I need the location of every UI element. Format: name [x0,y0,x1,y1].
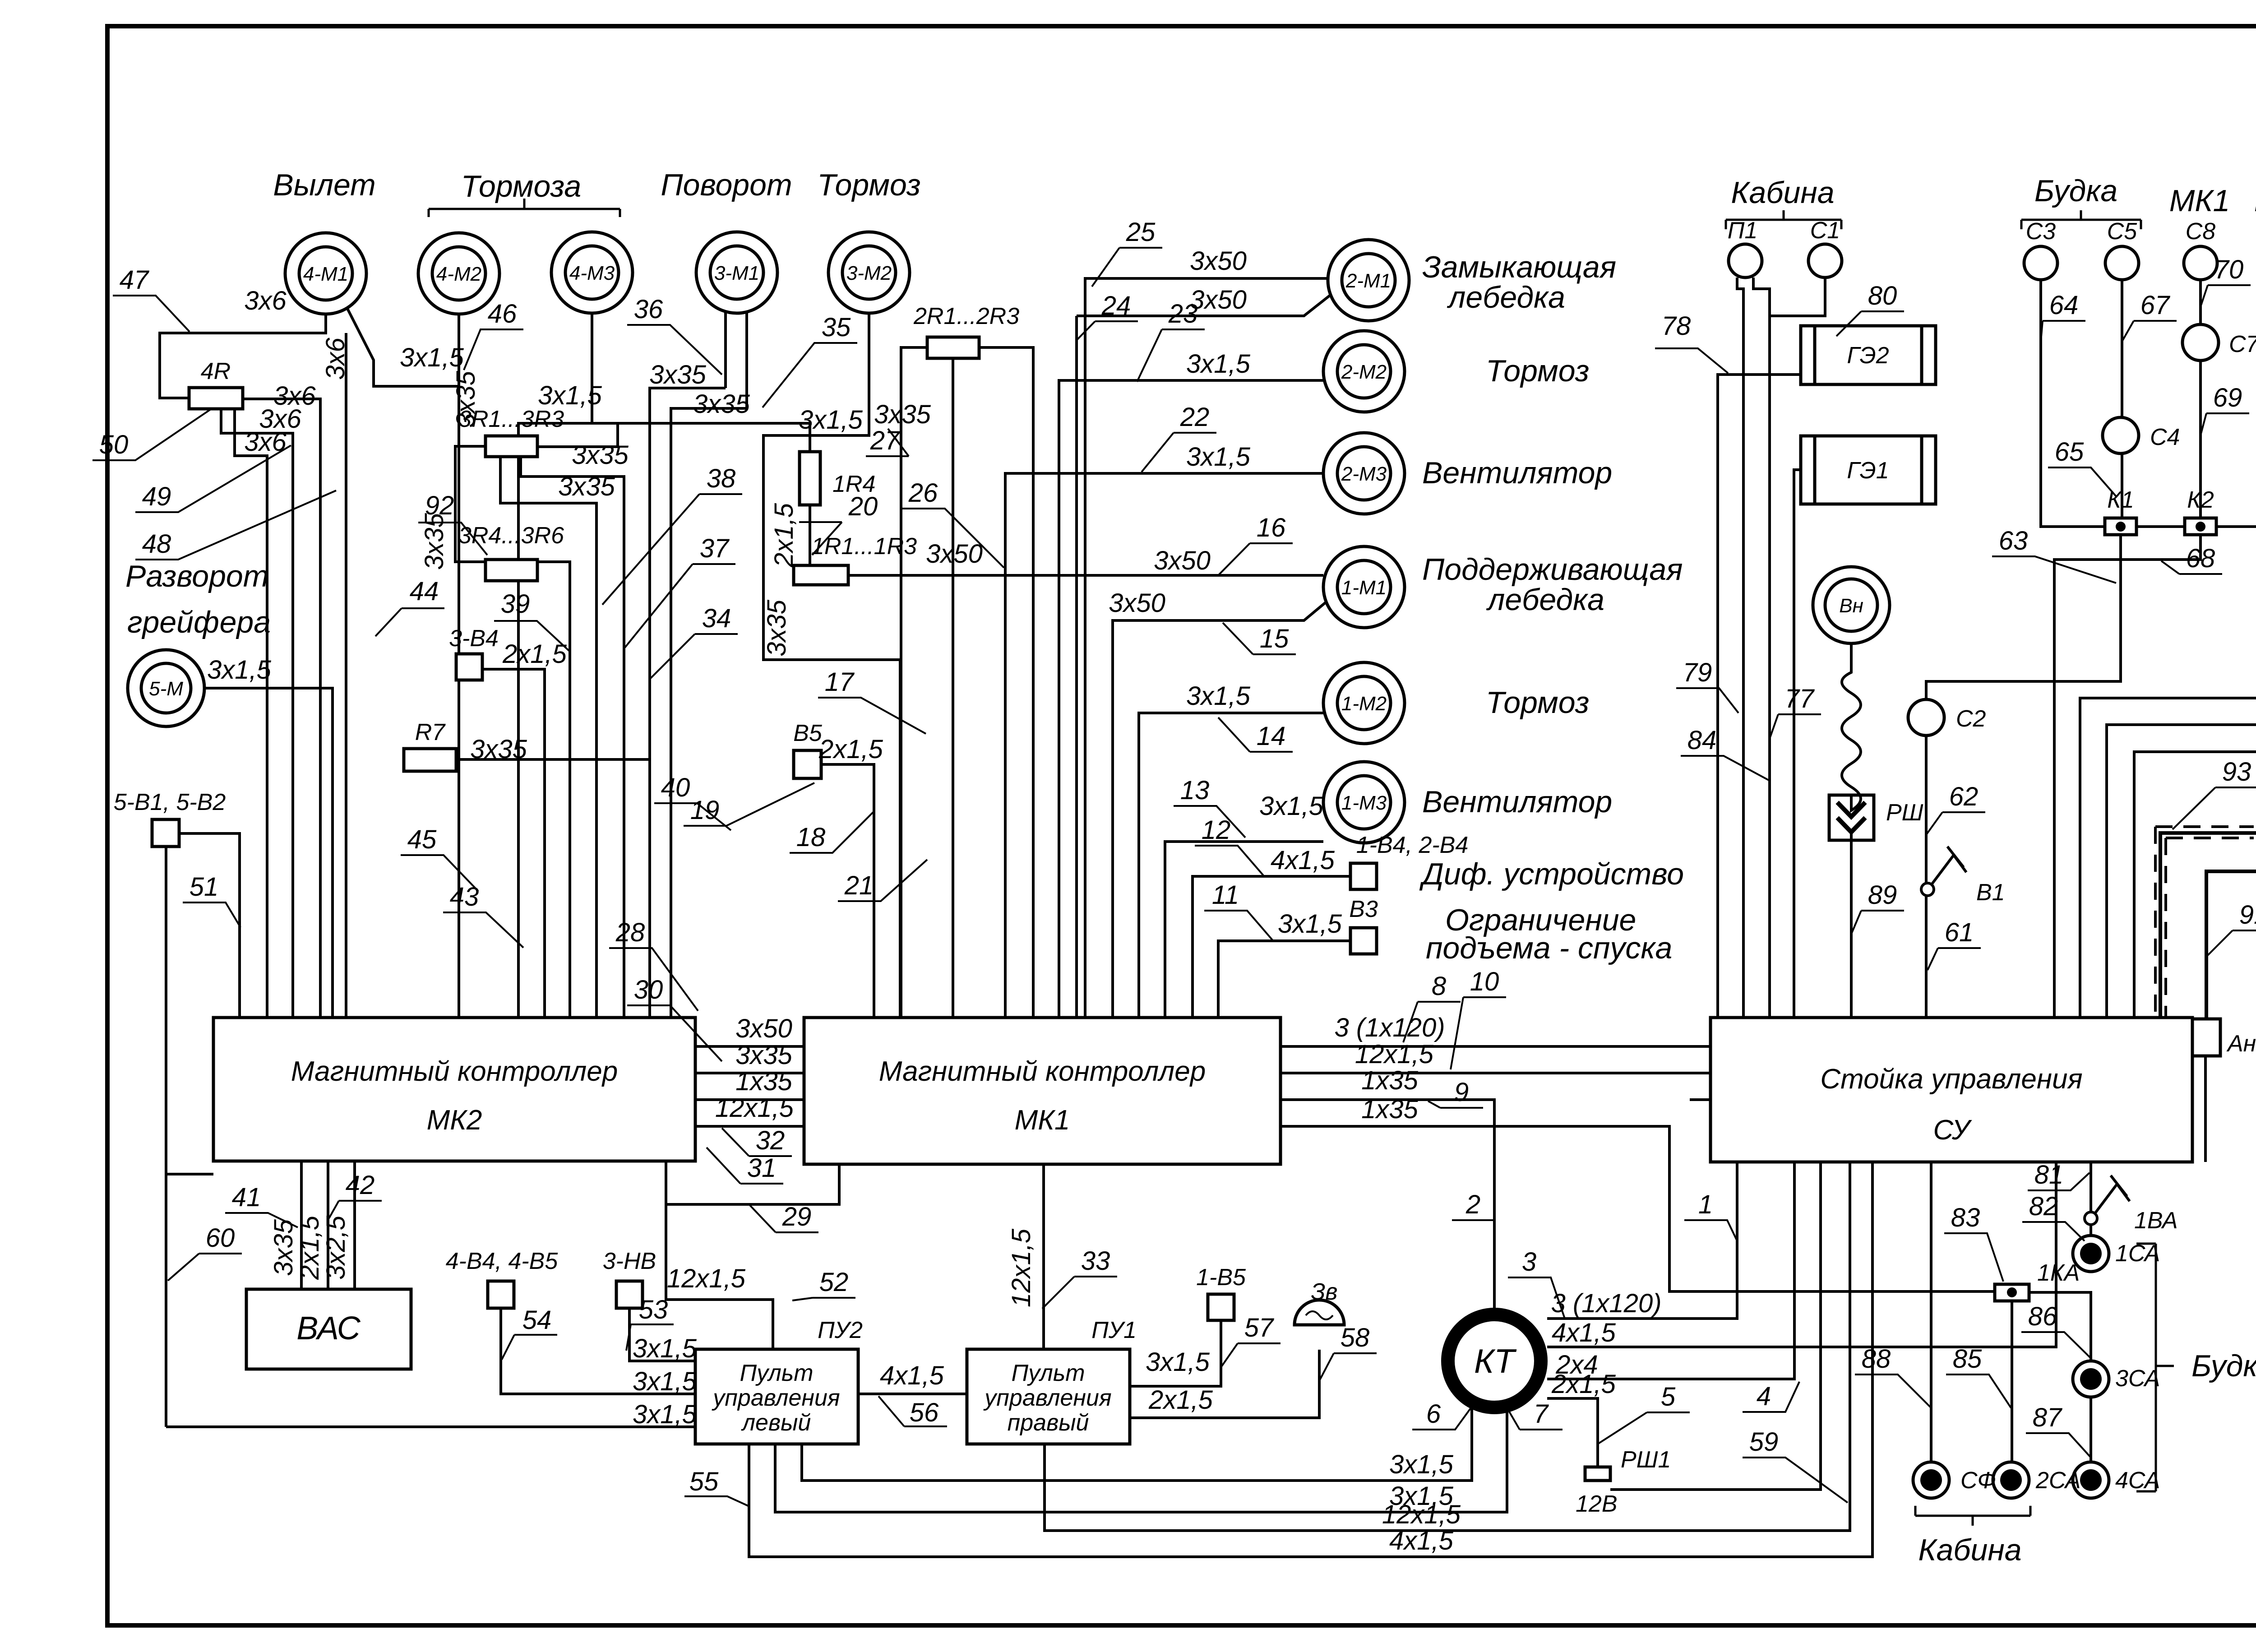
svg-text:С1: С1 [1810,217,1840,244]
svg-text:управления: управления [983,1385,1111,1411]
svg-text:Магнитный контроллер: Магнитный контроллер [879,1056,1206,1087]
svg-text:22: 22 [1180,403,1210,432]
svg-text:3: 3 [1522,1247,1536,1277]
svg-text:4х1,5: 4х1,5 [1271,846,1335,875]
svg-text:1: 1 [1698,1190,1713,1219]
svg-text:СУ: СУ [1933,1115,1972,1146]
svg-text:С7: С7 [2229,331,2256,357]
svg-text:Вылет: Вылет [273,168,375,202]
svg-text:12х1,5: 12х1,5 [1382,1500,1461,1529]
svg-text:ГЭ2: ГЭ2 [1847,342,1889,369]
svg-text:2х1,5: 2х1,5 [818,735,883,764]
svg-text:РШ1: РШ1 [1621,1447,1671,1473]
svg-text:Тормоз: Тормоз [1486,354,1589,388]
svg-text:12: 12 [1202,815,1231,845]
svg-text:3-М2: 3-М2 [846,262,892,284]
svg-text:5-М: 5-М [149,678,183,700]
svg-text:2х1,5: 2х1,5 [295,1215,324,1280]
svg-text:3х50: 3х50 [926,539,983,569]
svg-text:МК2: МК2 [427,1105,482,1136]
svg-text:12х1,5: 12х1,5 [715,1093,794,1123]
svg-text:3х35: 3х35 [874,400,931,429]
svg-text:3х50: 3х50 [1190,246,1247,276]
svg-text:4х1,5: 4х1,5 [1389,1526,1454,1555]
svg-text:2СА: 2СА [2035,1467,2080,1494]
svg-text:34: 34 [702,604,731,633]
svg-text:54: 54 [522,1305,552,1335]
svg-text:Ан: Ан [2226,1031,2256,1057]
svg-text:Зв: Зв [1311,1279,1337,1305]
svg-text:15: 15 [1260,624,1289,653]
svg-text:40: 40 [661,773,690,802]
svg-text:подъема - спуска: подъема - спуска [1426,931,1672,965]
svg-text:Тормоза: Тормоза [461,169,582,204]
svg-text:2х1,5: 2х1,5 [1551,1370,1616,1399]
svg-text:С5: С5 [2107,218,2138,245]
svg-text:28: 28 [615,918,645,947]
svg-text:8: 8 [1432,972,1446,1001]
svg-text:3СА: 3СА [2115,1365,2160,1392]
svg-text:Будка: Будка [2191,1349,2256,1383]
svg-text:25: 25 [1126,217,1156,247]
svg-text:65: 65 [2055,437,2084,467]
svg-text:31: 31 [747,1153,777,1183]
svg-text:1-М1: 1-М1 [1341,577,1387,599]
svg-text:1х35: 1х35 [735,1067,793,1096]
svg-text:41: 41 [232,1183,261,1212]
svg-text:33: 33 [1081,1246,1110,1276]
svg-text:78: 78 [1662,311,1691,341]
svg-text:12В: 12В [1576,1491,1618,1517]
svg-text:3х1,5: 3х1,5 [633,1400,697,1429]
svg-text:19: 19 [690,796,720,825]
svg-text:Замыкающая: Замыкающая [1422,250,1616,284]
svg-text:32: 32 [756,1126,785,1155]
svg-text:4-М3: 4-М3 [569,262,615,284]
svg-text:R7: R7 [415,719,446,745]
svg-text:3х35: 3х35 [420,513,449,570]
svg-text:3х35: 3х35 [451,370,481,428]
svg-text:4СА: 4СА [2115,1467,2160,1494]
svg-text:87: 87 [2033,1403,2063,1432]
svg-text:47: 47 [120,265,150,295]
svg-text:20: 20 [848,492,878,521]
svg-text:62: 62 [1949,782,1979,811]
svg-text:61: 61 [1945,918,1974,947]
svg-text:С2: С2 [1956,706,1986,732]
svg-text:27: 27 [870,426,901,455]
svg-text:3х35: 3х35 [269,1219,298,1276]
svg-text:23: 23 [1168,299,1198,329]
svg-text:3х1,5: 3х1,5 [1146,1347,1210,1377]
svg-text:2-М2: 2-М2 [1341,361,1387,383]
svg-text:3х1,5: 3х1,5 [207,655,272,685]
svg-text:3х1,5: 3х1,5 [633,1367,697,1396]
svg-text:39: 39 [501,589,530,619]
svg-text:4-В4, 4-В5: 4-В4, 4-В5 [446,1248,559,1274]
svg-text:3х50: 3х50 [1109,588,1165,618]
svg-text:44: 44 [410,577,439,606]
svg-text:Тормоз: Тормоз [1486,685,1589,720]
svg-text:12х1,5: 12х1,5 [1355,1040,1434,1069]
svg-text:37: 37 [700,534,730,563]
svg-text:1-В4, 2-В4: 1-В4, 2-В4 [1356,832,1469,858]
svg-text:24: 24 [1101,291,1131,320]
svg-text:Кабина: Кабина [1918,1533,2021,1567]
svg-text:86: 86 [2028,1302,2057,1331]
svg-text:2х1,5: 2х1,5 [1148,1385,1213,1415]
svg-text:2-М1: 2-М1 [1345,270,1391,292]
svg-text:12х1,5: 12х1,5 [1007,1228,1036,1307]
svg-text:МК1: МК1 [2169,184,2230,218]
svg-text:2х1,5: 2х1,5 [502,639,567,669]
svg-text:9: 9 [1454,1078,1469,1107]
svg-text:СФ: СФ [1960,1467,1996,1494]
svg-text:5-В1, 5-В2: 5-В1, 5-В2 [114,789,226,815]
svg-text:П1: П1 [1728,217,1758,244]
svg-text:3 (1х120): 3 (1х120) [1551,1289,1661,1318]
svg-text:С8: С8 [2186,218,2216,245]
svg-text:3х35: 3х35 [693,389,750,419]
svg-text:1х35: 1х35 [1361,1066,1419,1095]
svg-text:45: 45 [407,825,437,854]
svg-text:69: 69 [2213,383,2242,412]
svg-text:3R4...3R6: 3R4...3R6 [458,523,564,549]
svg-text:4х1,5: 4х1,5 [1552,1318,1616,1347]
svg-text:Диф. устройство: Диф. устройство [1419,857,1684,891]
svg-text:48: 48 [142,529,171,559]
svg-text:Пульт: Пульт [740,1360,813,1386]
svg-text:3х35: 3х35 [735,1041,793,1070]
svg-text:3х1,5: 3х1,5 [400,343,464,372]
svg-text:18: 18 [796,823,826,852]
svg-text:Поворот: Поворот [661,168,792,202]
svg-text:Будка: Будка [2034,174,2117,208]
svg-text:2х1,5: 2х1,5 [769,503,799,568]
svg-text:ПУ1: ПУ1 [1091,1317,1137,1343]
svg-text:1х35: 1х35 [1361,1095,1419,1124]
svg-text:2-М3: 2-М3 [1341,463,1387,485]
svg-text:26: 26 [908,478,938,508]
svg-text:91: 91 [2239,900,2256,930]
svg-text:Кабина: Кабина [1731,176,1834,210]
svg-text:1КА: 1КА [2037,1260,2080,1286]
svg-text:92: 92 [425,491,454,520]
svg-text:84: 84 [1687,726,1717,755]
svg-text:38: 38 [707,464,736,493]
svg-text:3х1,5: 3х1,5 [633,1334,697,1363]
svg-text:43: 43 [450,882,479,912]
svg-text:4: 4 [1757,1382,1771,1411]
svg-text:59: 59 [1749,1427,1779,1457]
svg-text:3х1,5: 3х1,5 [1186,681,1251,711]
svg-text:3х1,5: 3х1,5 [1278,909,1342,939]
svg-text:КТ: КТ [1474,1342,1517,1380]
svg-text:12х1,5: 12х1,5 [667,1264,746,1293]
svg-text:60: 60 [206,1223,235,1253]
svg-text:79: 79 [1683,658,1712,687]
svg-text:левый: левый [741,1410,811,1436]
svg-text:В5: В5 [793,720,823,746]
svg-text:42: 42 [346,1171,375,1200]
svg-text:1-В5: 1-В5 [1196,1264,1246,1291]
svg-text:Поддерживающая: Поддерживающая [1422,552,1683,587]
svg-text:ГЭ1: ГЭ1 [1847,458,1889,484]
svg-text:4-М2: 4-М2 [436,263,481,285]
svg-text:17: 17 [825,667,855,697]
svg-text:2R1...2R3: 2R1...2R3 [913,303,1019,329]
svg-text:6: 6 [1426,1399,1441,1429]
svg-text:РШ: РШ [1886,800,1923,826]
svg-text:52: 52 [819,1268,849,1297]
svg-text:Магнитный контроллер: Магнитный контроллер [291,1056,618,1087]
svg-text:В1: В1 [1976,879,2005,906]
svg-text:10: 10 [1470,967,1499,996]
svg-text:82: 82 [2029,1192,2058,1221]
svg-text:С4: С4 [2150,424,2180,450]
svg-text:К2: К2 [2187,487,2214,513]
svg-text:Пульт: Пульт [1011,1360,1085,1386]
svg-text:3х1,5: 3х1,5 [1259,791,1324,821]
svg-text:51: 51 [190,872,219,902]
svg-text:21: 21 [844,871,874,900]
svg-text:ПУ2: ПУ2 [818,1317,863,1343]
svg-text:3-В4: 3-В4 [449,625,499,652]
svg-text:1ВА: 1ВА [2134,1208,2178,1234]
svg-text:Разворот: Разворот [125,559,268,593]
svg-text:4R: 4R [201,358,231,384]
svg-text:3х6: 3х6 [244,286,287,315]
svg-text:3х35: 3х35 [470,735,527,764]
svg-text:3х35: 3х35 [762,599,791,657]
svg-text:50: 50 [99,430,129,459]
svg-text:89: 89 [1868,880,1897,910]
svg-text:3-НВ: 3-НВ [603,1248,656,1274]
svg-text:46: 46 [488,299,517,329]
svg-text:3х50: 3х50 [1190,285,1247,315]
svg-text:77: 77 [1785,684,1815,713]
svg-text:35: 35 [822,313,851,342]
svg-text:1-М3: 1-М3 [1341,792,1387,814]
svg-text:93: 93 [2222,757,2251,787]
svg-text:3х1,5: 3х1,5 [538,381,602,410]
svg-text:грейфера: грейфера [127,605,271,639]
svg-text:3х50: 3х50 [735,1014,792,1043]
svg-text:3х35: 3х35 [649,360,707,389]
svg-text:3 (1х120): 3 (1х120) [1334,1013,1445,1042]
svg-text:30: 30 [634,975,663,1004]
svg-text:лебедка: лебедка [1486,583,1604,617]
svg-text:36: 36 [634,295,663,324]
svg-text:16: 16 [1257,513,1286,542]
svg-text:56: 56 [910,1398,939,1427]
svg-text:68: 68 [2186,544,2215,573]
svg-text:58: 58 [1341,1323,1370,1352]
svg-text:МК2: МК2 [2254,184,2256,218]
svg-text:49: 49 [142,482,171,511]
svg-text:57: 57 [1244,1313,1275,1342]
svg-text:3х1,5: 3х1,5 [1186,442,1251,472]
svg-text:1СА: 1СА [2115,1240,2160,1267]
svg-text:67: 67 [2140,291,2171,320]
svg-text:3х35: 3х35 [558,472,615,501]
svg-text:64: 64 [2049,291,2079,320]
svg-text:3х6: 3х6 [321,338,350,380]
svg-text:3х1,5: 3х1,5 [1389,1450,1454,1479]
svg-text:Вентилятор: Вентилятор [1422,785,1612,819]
svg-text:13: 13 [1180,776,1210,805]
svg-text:3-М1: 3-М1 [714,262,759,284]
svg-text:3х35: 3х35 [572,440,629,470]
svg-text:80: 80 [1868,281,1897,310]
svg-text:4-М1: 4-М1 [303,263,348,285]
svg-text:В3: В3 [1349,896,1378,922]
svg-text:3х1,5: 3х1,5 [1186,349,1251,379]
svg-text:4х1,5: 4х1,5 [880,1361,944,1390]
svg-text:63: 63 [1999,526,2028,555]
svg-text:88: 88 [1862,1344,1891,1374]
svg-text:лебедка: лебедка [1447,280,1565,315]
svg-text:53: 53 [639,1295,668,1324]
svg-text:Вентилятор: Вентилятор [1422,456,1612,490]
svg-text:3х50: 3х50 [1154,546,1211,575]
svg-text:Тормоз: Тормоз [817,168,920,202]
svg-text:14: 14 [1257,722,1286,751]
svg-text:83: 83 [1951,1203,1980,1232]
svg-text:правый: правый [1008,1410,1089,1436]
svg-text:Стойка управления: Стойка управления [1820,1064,2082,1095]
svg-text:Вн: Вн [1839,595,1863,617]
svg-text:81: 81 [2034,1160,2064,1189]
svg-text:7: 7 [1534,1399,1549,1429]
svg-text:5: 5 [1661,1382,1676,1411]
svg-text:МК1: МК1 [1015,1105,1070,1136]
svg-text:85: 85 [1953,1344,1982,1374]
svg-text:2: 2 [1465,1190,1480,1219]
svg-text:1-М2: 1-М2 [1341,693,1387,715]
svg-text:3х2,5: 3х2,5 [321,1215,351,1280]
svg-text:С3: С3 [2026,218,2056,245]
svg-text:3х1,5: 3х1,5 [799,405,863,435]
svg-text:ВАС: ВАС [296,1310,361,1347]
svg-text:11: 11 [1212,880,1239,910]
svg-text:70: 70 [2214,255,2244,284]
svg-text:29: 29 [782,1202,812,1231]
svg-text:55: 55 [689,1467,719,1496]
svg-text:управления: управления [712,1385,840,1411]
